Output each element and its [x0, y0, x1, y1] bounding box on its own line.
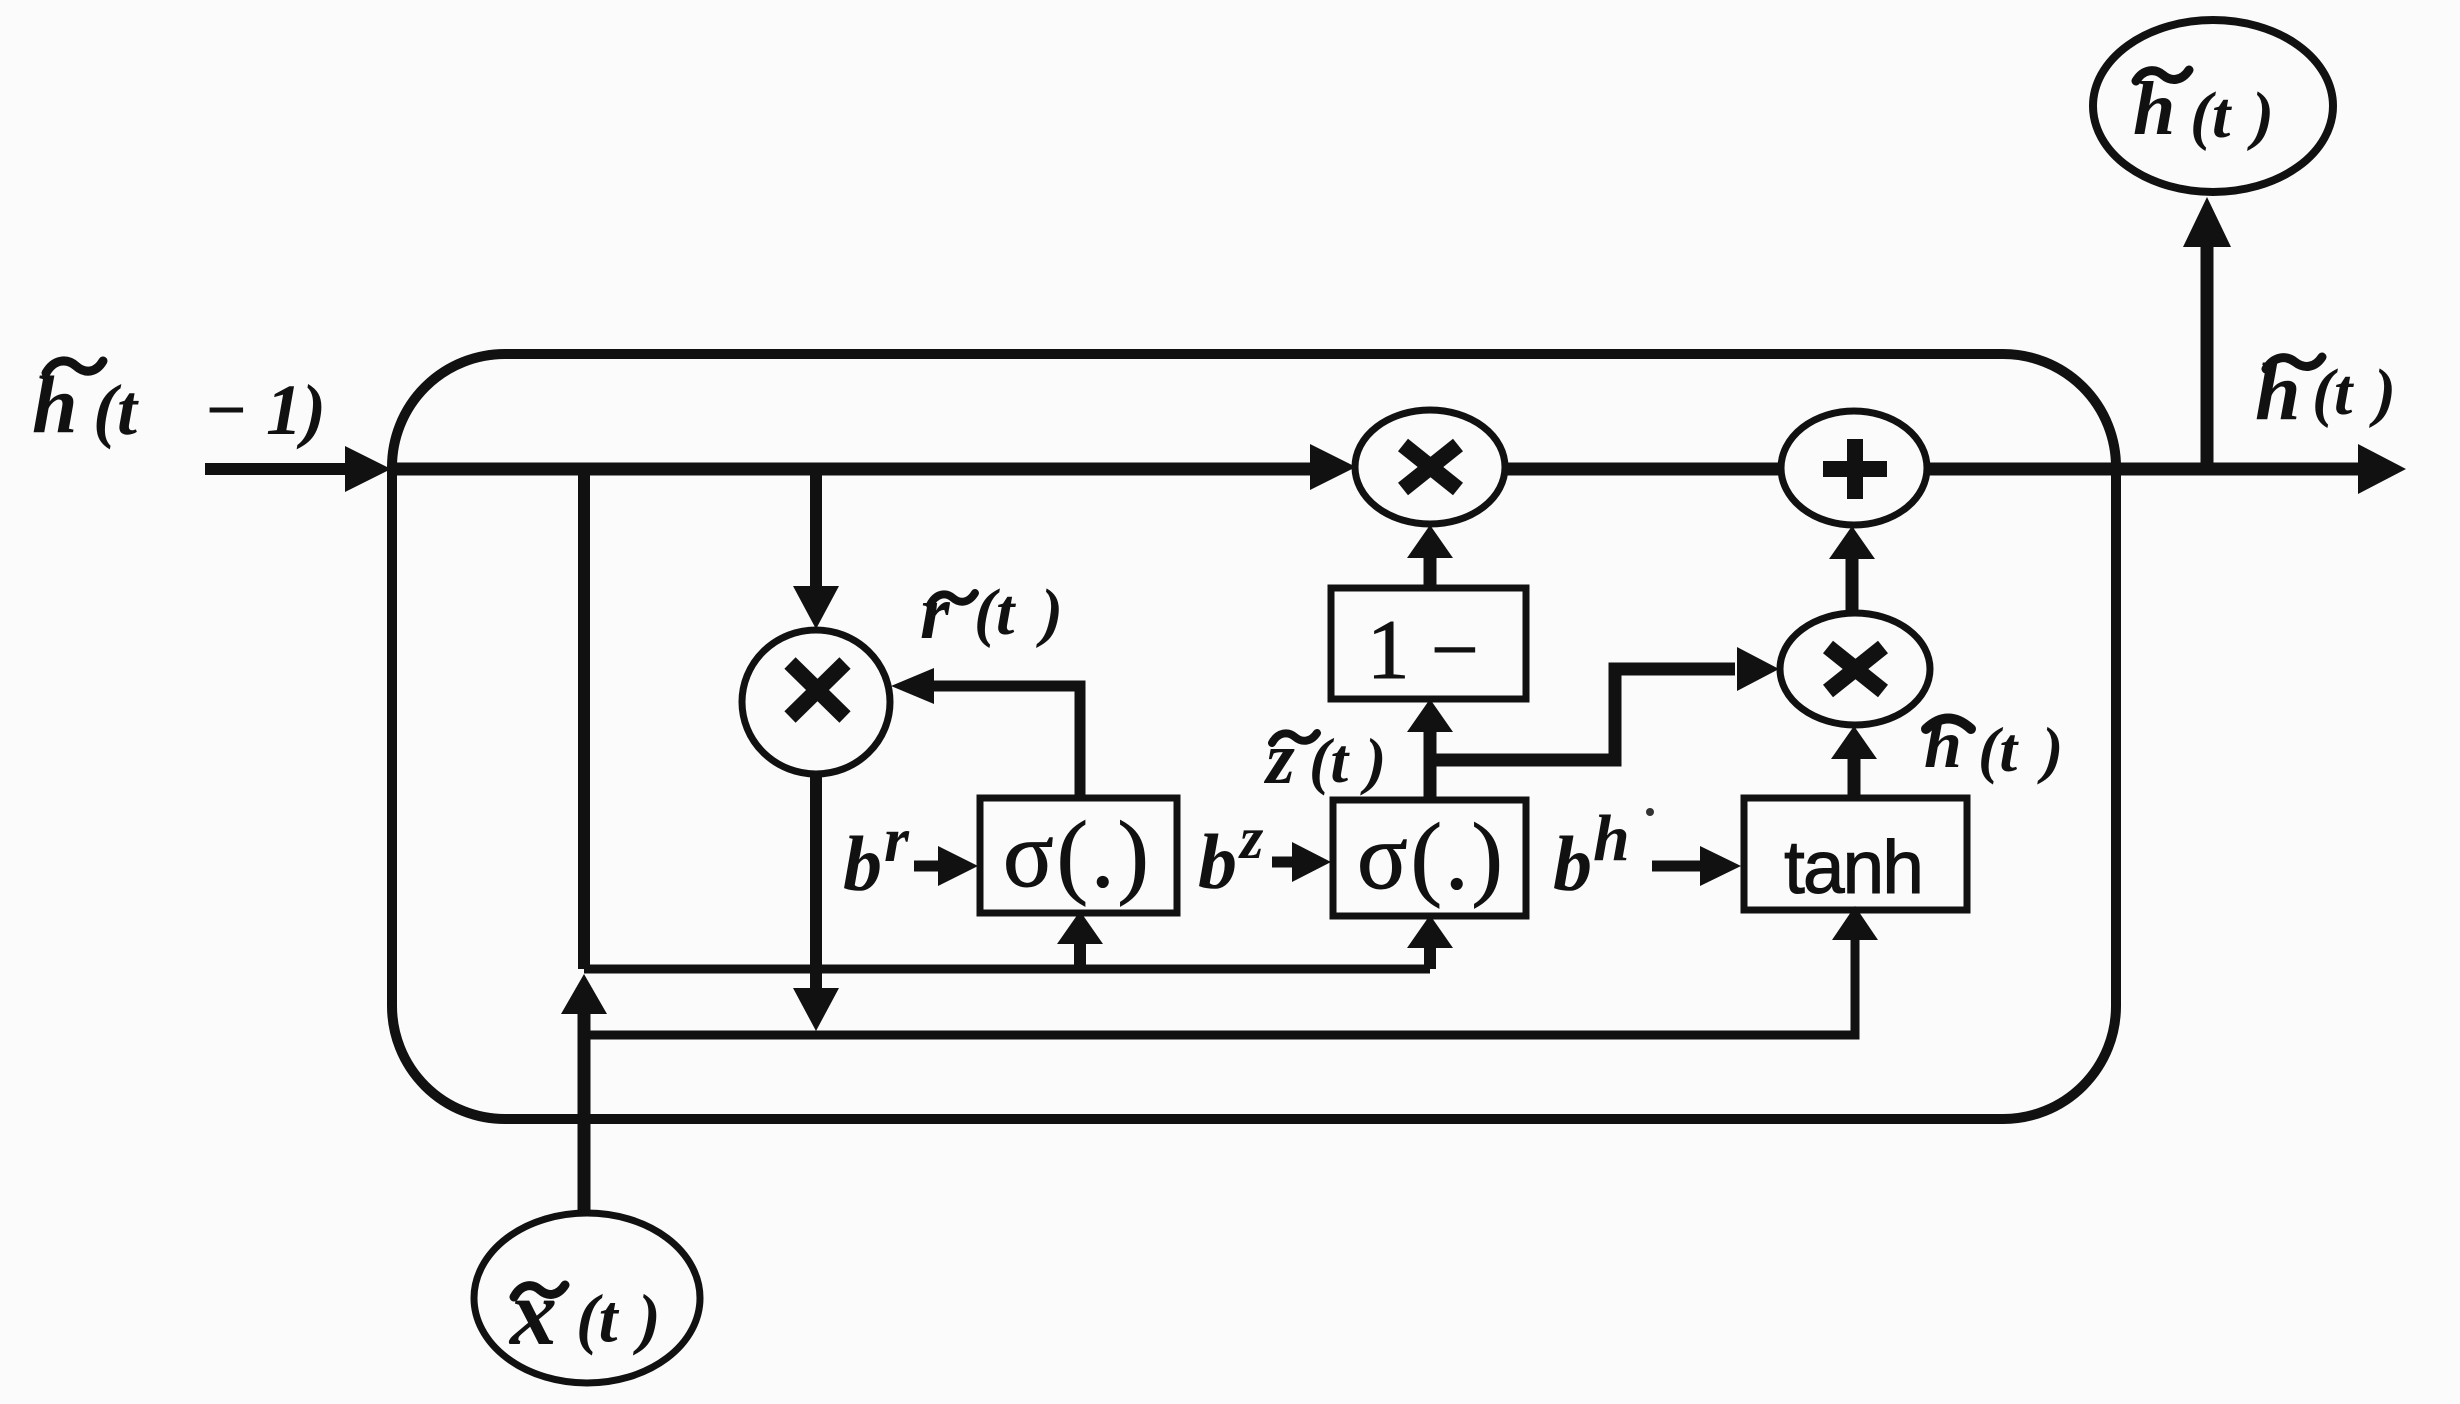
node: x(t) input ellipse: [474, 1213, 700, 1383]
node: z(t) label: [1263, 718, 1386, 800]
svg-text:b: b: [1553, 820, 1592, 907]
svg-text:σ(.): σ(.): [1357, 805, 1506, 909]
svg-text:): ): [1036, 576, 1063, 649]
svg-text:(t: (t: [1309, 725, 1350, 796]
svg-text:h: h: [1593, 802, 1630, 875]
wire: S2 output up with arrow into 1-minus box (z(t) wire): [1424, 730, 1437, 800]
wire: concat line A feeding sigma boxes: [584, 965, 1430, 974]
wire: X1 output down with arrow onto line B: [810, 774, 822, 990]
node: h(t-1) input label: [32, 359, 326, 450]
svg-text:): ): [2247, 79, 2274, 152]
wire: line A turn-up arrow into sigma box S2: [1424, 946, 1436, 969]
multiplier X2 (update gate product): [1780, 613, 1930, 725]
multiplier X3 (on main h line): [1355, 410, 1505, 524]
multiplier X1 (reset gate product): [742, 630, 890, 774]
svg-text:tanh: tanh: [1784, 825, 1922, 909]
svg-text:r: r: [884, 804, 910, 875]
sigma box S1 (reset gate): [980, 798, 1177, 913]
svg-text:b: b: [843, 820, 882, 907]
node: h(t) label right of output arrow: [2255, 346, 2396, 437]
svg-text:1 −: 1 −: [1367, 603, 1479, 697]
node: b^r label with arrow into S1: [843, 804, 910, 907]
svg-text:r: r: [920, 571, 951, 655]
sigma box S2 (update gate): [1333, 800, 1526, 916]
node: h-hat(t) label: [1924, 706, 2063, 785]
svg-text:h: h: [32, 359, 78, 450]
wire: main h line from left edge to multiplier X3: [392, 463, 1312, 476]
svg-text:(t: (t: [576, 1280, 620, 1356]
svg-text:(t: (t: [974, 576, 1016, 649]
wire: branch down at x=816 with arrow into multiplier X1: [810, 469, 822, 588]
wire: h(t) output up arrow to output ellipse: [2201, 245, 2214, 469]
svg-text:): ): [2369, 356, 2396, 429]
wire: line A up-arrow into sigma box S1: [1074, 942, 1086, 969]
wire: tanh output up with arrow into X2: [1848, 757, 1861, 798]
svg-text:b: b: [1198, 818, 1237, 905]
wire: z branch right then up into multiplier X2: [1430, 669, 1735, 760]
svg-text:(t: (t: [1978, 714, 2019, 785]
GRU cell boundary (rounded rectangle): [392, 354, 2116, 1119]
svg-text:h: h: [1924, 706, 1962, 782]
wire: h(t-1) input arrow into cell: [205, 446, 391, 492]
svg-text:1): 1): [266, 370, 326, 450]
svg-text:z: z: [1238, 805, 1264, 871]
wire: 1-minus output up with arrow into multiplier X3: [1424, 556, 1437, 588]
wire: concat line B feeding tanh box: [584, 938, 1855, 1035]
node: h(t) output ellipse: [2093, 20, 2333, 192]
box: 1-minus: [1331, 588, 1526, 699]
svg-text:(t: (t: [93, 370, 139, 450]
wire: X3 output to adder: [1505, 463, 1781, 476]
svg-text:σ(.): σ(.): [1003, 803, 1152, 907]
svg-text:x: x: [508, 1261, 557, 1365]
svg-text:−: −: [204, 370, 248, 450]
wire: branch down at x=584 to concat line A: [578, 469, 590, 969]
wire: x(t) input vertical with arrow up to line A: [578, 1012, 591, 1213]
wire: X2 output up with arrow into adder: [1846, 557, 1859, 612]
node: r(t) label: [920, 571, 1063, 655]
stray dot artifact: [1646, 808, 1654, 816]
wire: S1 output up and left into X1 (r(t) wire): [934, 686, 1080, 798]
tanh box: [1744, 798, 1967, 910]
node: b^h label with arrow into tanh: [1553, 802, 1630, 907]
svg-text:(t: (t: [2190, 79, 2232, 152]
node: b^z label with arrow into S2: [1198, 805, 1264, 905]
adder (plus circle): [1781, 411, 1927, 525]
svg-text:(t: (t: [2312, 356, 2354, 429]
wire: adder output right with final output arrow: [1927, 463, 2360, 476]
